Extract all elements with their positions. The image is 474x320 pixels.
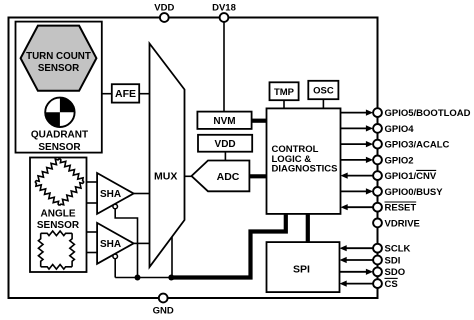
AFE <box>112 84 139 102</box>
pin CS <box>340 278 398 290</box>
wire ADC to control (bus) <box>249 174 266 178</box>
wire SHA1 to MUX <box>134 193 150 195</box>
wire bottom ground rail <box>8 297 379 299</box>
node junction J1 <box>135 275 141 281</box>
svg-text:NVM: NVM <box>213 116 235 127</box>
pin GPIO1/CNV <box>341 170 437 182</box>
svg-text:GPIO4: GPIO4 <box>385 124 415 135</box>
pin SDI <box>340 255 401 266</box>
bridge square resistor left <box>38 233 43 266</box>
wire top supply rail <box>8 17 379 19</box>
angle sensor label <box>37 209 80 231</box>
pin SCLK <box>340 244 411 255</box>
pin GPIO4 <box>341 124 415 135</box>
wire sensor box to AFE <box>102 93 112 95</box>
svg-text:DIAGNOSTICS: DIAGNOSTICS <box>272 164 338 175</box>
pin GPIO2 <box>341 155 414 166</box>
svg-text:AFE: AFE <box>115 88 136 100</box>
svg-text:GPIO1/CNV: GPIO1/CNV <box>385 171 437 182</box>
bridge diamond resistor bottom-right <box>60 182 85 206</box>
pin GPIO0/BUSY <box>341 187 444 198</box>
svg-text:GPIO0/BUSY: GPIO0/BUSY <box>385 187 444 198</box>
wire AFE to MUX <box>139 93 149 95</box>
pin DV18 <box>212 3 236 22</box>
svg-text:SPI: SPI <box>293 263 310 275</box>
svg-text:VDRIVE: VDRIVE <box>385 218 420 229</box>
svg-text:RESET: RESET <box>385 203 417 214</box>
wire SHA2 bubble to clock bus <box>114 259 116 278</box>
wires angle sensor to SHA1 <box>87 182 98 203</box>
TMP <box>270 82 299 100</box>
wire left border <box>8 17 10 300</box>
svg-text:SCLK: SCLK <box>385 244 411 255</box>
svg-text:TURN COUNT: TURN COUNT <box>26 51 91 62</box>
svg-text:GND: GND <box>153 306 174 317</box>
svg-text:SDO: SDO <box>385 267 406 278</box>
svg-text:GPIO2: GPIO2 <box>385 155 414 166</box>
bridge square resistor bottom <box>41 265 72 270</box>
quadrant sensor label <box>31 130 88 154</box>
wire DV18 to NVM <box>223 22 225 112</box>
svg-text:ADC: ADC <box>217 171 240 183</box>
svg-text:GPIO3/ACALC: GPIO3/ACALC <box>385 140 450 151</box>
pin GPIO3/ACALC <box>341 140 450 151</box>
svg-text:VDD: VDD <box>154 3 174 14</box>
svg-text:DV18: DV18 <box>212 3 236 14</box>
SHA1 sampling bubble <box>113 204 118 209</box>
pin RESET <box>341 202 417 214</box>
svg-text:TMP: TMP <box>274 87 295 98</box>
svg-text:OSC: OSC <box>313 86 334 97</box>
SPI box <box>267 242 340 292</box>
svg-text:SENSOR: SENSOR <box>38 142 81 153</box>
svg-text:SHA: SHA <box>100 189 121 200</box>
quadrant sensor symbol <box>45 98 74 127</box>
wire NVM to control (bus) <box>252 119 267 123</box>
pin VDD <box>154 3 174 22</box>
wire MUX select <box>171 237 173 278</box>
MUX <box>150 44 185 268</box>
NVM <box>197 112 251 129</box>
wire control to SPI (bus) <box>306 214 310 242</box>
bridge diamond resistor top-left <box>35 159 60 183</box>
bridge diamond resistor top-right <box>60 159 85 183</box>
svg-text:GPIO5/BOOTLOAD: GPIO5/BOOTLOAD <box>385 108 471 119</box>
wire right pin rail <box>377 17 379 300</box>
wire MUX to ADC <box>185 175 192 177</box>
angle sensor box <box>30 158 87 273</box>
wire TMP to control <box>283 100 285 108</box>
op-amp SHA1 <box>97 173 134 214</box>
pin GPIO5/BOOTLOAD <box>341 108 471 119</box>
wires angle sensor to SHA2 <box>87 232 98 253</box>
bridge square resistor right <box>70 233 75 266</box>
SHA2 sampling bubble <box>113 254 118 259</box>
svg-text:SDI: SDI <box>385 255 401 266</box>
control logic box U1 <box>267 108 341 213</box>
op-amp SHA2 <box>97 223 134 264</box>
pin VDRIVE <box>373 218 420 229</box>
VDD regulator <box>198 135 252 152</box>
sensor block box <box>16 22 102 153</box>
turn count sensor hexagon <box>21 26 97 91</box>
node junction J2 <box>168 275 174 281</box>
svg-text:CS: CS <box>385 279 398 290</box>
svg-text:MUX: MUX <box>154 171 177 183</box>
svg-text:QUADRANT: QUADRANT <box>31 130 88 141</box>
svg-text:SHA: SHA <box>100 239 121 250</box>
ADC <box>192 161 250 192</box>
svg-text:VDD: VDD <box>215 139 236 150</box>
svg-text:SENSOR: SENSOR <box>37 220 80 231</box>
wire VDD to ADC <box>224 152 226 161</box>
svg-text:ANGLE: ANGLE <box>41 209 76 220</box>
wire thick control bus to SHA/MUX <box>171 214 285 278</box>
svg-text:SENSOR: SENSOR <box>38 63 79 74</box>
pin GND <box>153 294 174 317</box>
bridge diamond resistor bottom-left <box>35 182 60 206</box>
wire SHA1 bubble to clock bus <box>115 209 137 278</box>
wire SHA clock bus <box>115 277 171 279</box>
wire OSC to control <box>322 99 324 108</box>
OSC <box>308 81 338 99</box>
wire SHA2 to MUX <box>134 242 150 244</box>
pin SDO <box>340 267 406 278</box>
bridge square resistor top <box>41 231 72 236</box>
